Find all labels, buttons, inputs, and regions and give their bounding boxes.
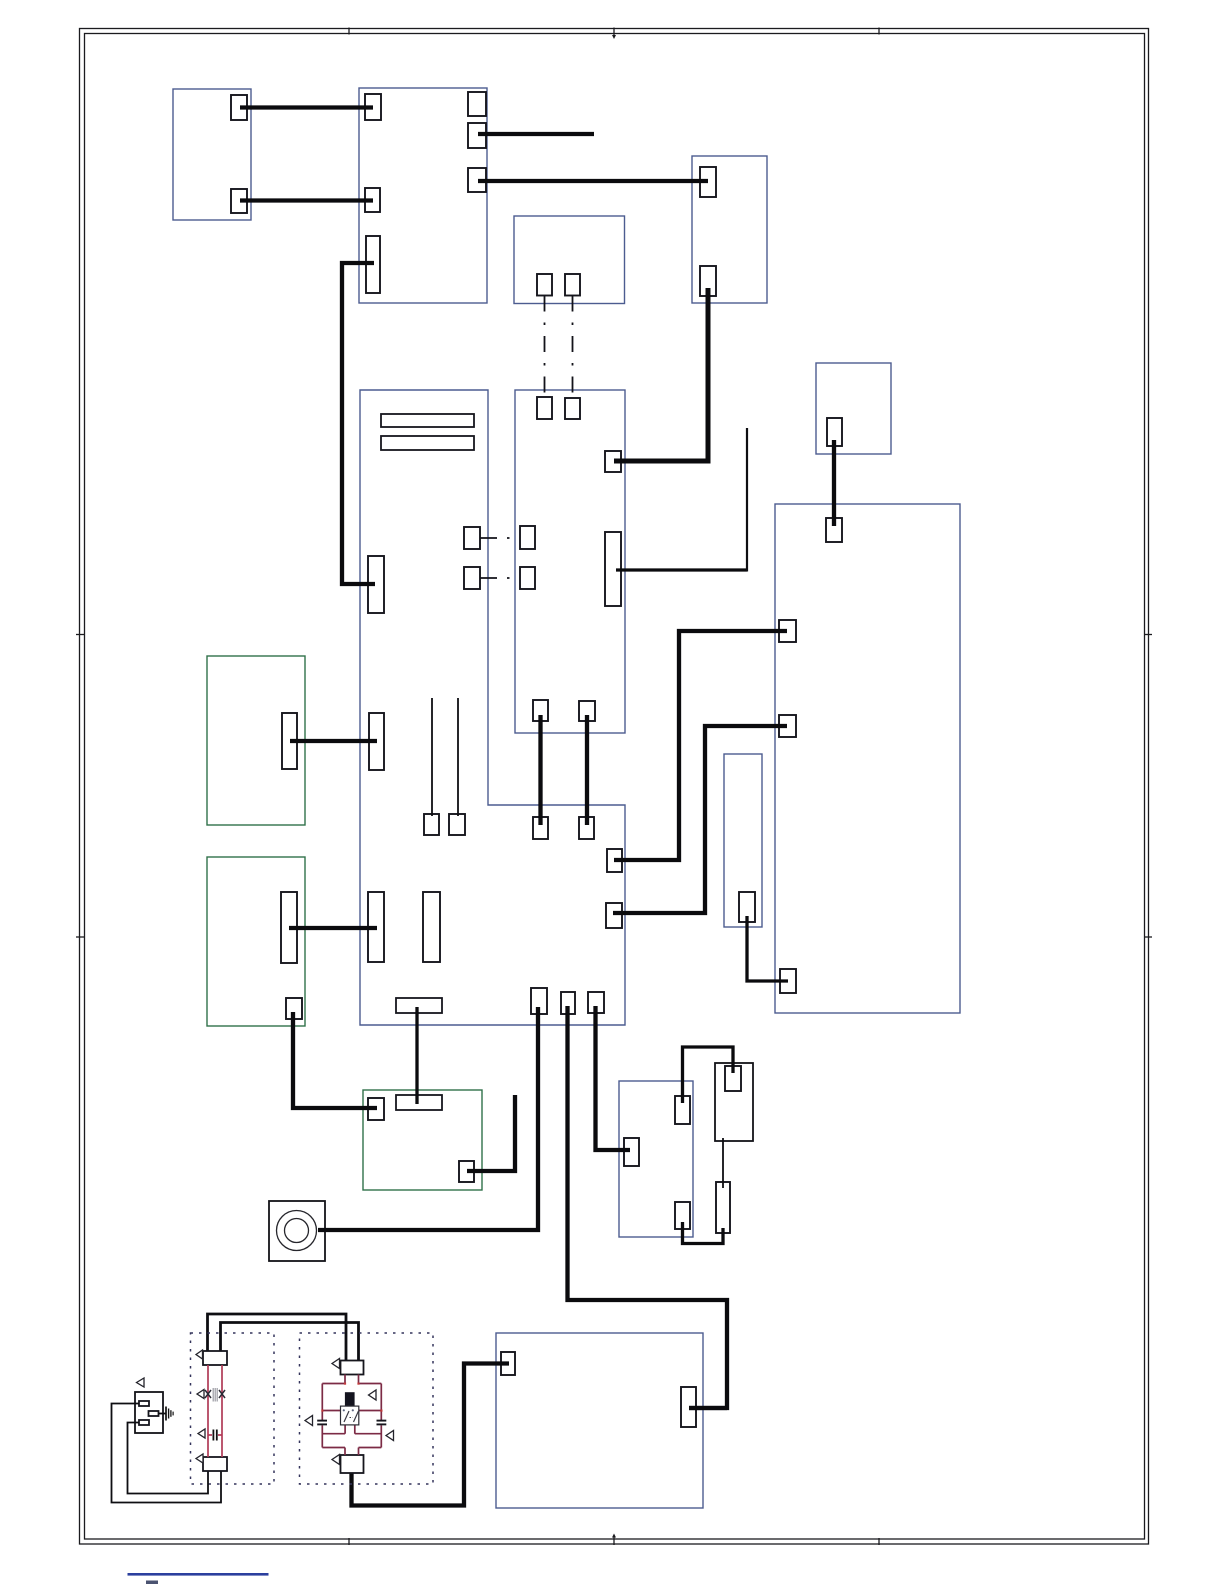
wire B-D [240,198,373,202]
igniter lower horizontals [322,1433,381,1435]
igniter mid horizontals [322,1410,381,1412]
connector F [468,92,486,116]
wire W-X [289,926,377,930]
wire stub from tall connector T vertical [746,428,748,572]
resistor element [716,1182,730,1233]
frame tick top-left [348,28,350,35]
block: narrow tall box right-center [724,754,762,927]
title underline bottom-left [128,1573,269,1576]
dash-dot link K to O [544,296,546,398]
connector J [700,266,716,296]
pin triangle lamp mid [197,1390,204,1399]
wire lamp top to igniter top (run 1) [208,1314,347,1362]
connector amplifier left [501,1352,515,1375]
dashed enclosure right (igniter assembly) [300,1333,434,1484]
connector N [826,518,842,542]
wire M to N [832,440,836,526]
wire center box lower pin 2 down [585,715,589,825]
igniter top connector [341,1361,364,1375]
wire black module to resistor (thin) [722,1138,724,1188]
connector V [369,713,384,770]
igniter coil filled block [345,1392,355,1407]
wire lower-middle box top to black module [683,1047,734,1103]
wire lower-middle box bottom loop [683,1222,724,1244]
wire control unit upper-left pin to harness [614,631,787,860]
connector center box bottom 1 [533,700,548,721]
connector O [537,397,552,419]
dash-dot link L to P [572,296,574,399]
connector harness right 2 [606,903,622,928]
block: main upper junction box [359,88,487,303]
connector U tall [282,713,297,769]
igniter right rail [380,1384,382,1448]
igniter bottom rails [322,1447,381,1449]
igniter capacitor left plates [317,1420,327,1422]
wire narrow box to control unit lower pin [747,916,788,981]
pin triangle igniter left capacitor [305,1416,313,1426]
igniter drops to bottom connector [345,1448,359,1456]
block: large right control unit box [775,504,960,1013]
block: top-left component box [173,89,251,220]
wire stub from tall connector T horizontal [616,568,747,571]
wire lamp top to igniter top (run 2) [221,1323,359,1363]
frame tick bottom-right [878,1538,880,1545]
igniter junction marks [321,1410,323,1412]
wire harness pin 2 to bottom amplifier [568,1006,728,1408]
connector green box right [459,1161,474,1182]
connector harness left tall 1 [368,556,384,613]
wire H to relay box [478,179,708,183]
igniter box drops bottom [345,1425,355,1434]
connector S2 [520,567,535,589]
relay pin 1 [139,1401,149,1406]
connector W tall [281,892,297,963]
connector control-unit pin lower [780,969,796,993]
pin triangle igniter bottom [332,1455,340,1465]
wire from tall connector E to left harness box [342,263,375,584]
connector below step 2 [579,817,594,839]
frame tick top-middle [613,28,615,36]
connector C [365,94,381,120]
igniter left rail [321,1384,323,1448]
horn inner ring [285,1219,309,1243]
connector harness bottom 3 [588,992,604,1013]
igniter capacitor right plates [377,1420,387,1422]
wire bottom amplifier right connector [689,1406,727,1410]
connector green box bar [396,1095,442,1110]
wire harness pin 3 to lower-middle box [596,1006,631,1150]
block: green switch box upper [207,656,305,825]
connector narrow box bottom [739,892,755,922]
lamp core lines [212,1388,214,1402]
connector S1 [464,567,480,589]
block: center tall box [515,390,625,733]
frame tick right-lower [1144,936,1152,938]
relay pin 2 [139,1420,149,1425]
igniter top rails [322,1383,381,1385]
connector bottom bar strip [396,998,442,1013]
connector antenna stub 1 [424,814,439,835]
pin triangle lamp bottom [196,1454,203,1463]
connector Y [286,998,302,1019]
frame tick left-lower [76,936,85,938]
frame tick bottom-middle [613,1538,615,1546]
wire green box right connector stub up [467,1095,515,1171]
connector A [231,95,247,120]
wire U-V [290,739,377,743]
connector lower-middle box bottom [675,1202,690,1229]
horn outer ring [277,1211,317,1251]
pin triangle relay [137,1378,145,1387]
connector Q [605,451,621,472]
connector D [365,188,380,212]
cropped text mark below underline [146,1581,158,1584]
connector H [468,168,486,192]
black module box [715,1063,753,1141]
connector antenna stub 2 [449,814,465,835]
connector control-unit pin middle [779,715,796,737]
lamp filament X right [219,1390,225,1398]
wire stub from connector G [478,132,594,136]
dash-dot link S1-S2 [480,577,520,579]
block: green control box bottom [363,1090,482,1190]
igniter switch box [341,1406,359,1425]
connector X2 [423,892,440,962]
lamp capacitor leads [208,1434,212,1436]
relay wire run 2 [128,1423,209,1494]
wire center box lower pin 1 down [538,715,542,825]
connector green box left [368,1098,384,1120]
igniter bottom connector [341,1455,364,1473]
frame tick bottom-left [348,1538,350,1545]
connector harness bottom 1 [531,988,547,1014]
relay box bottom-left [135,1392,163,1433]
connector L [565,274,580,296]
block: bottom amplifier box [496,1333,703,1508]
connector R1 [464,527,480,549]
lamp filament X left [205,1390,211,1398]
wire A-C [240,105,373,109]
lamp unit top connector [203,1351,227,1365]
block: green switch box lower [207,857,305,1026]
frame tick top-right [878,28,880,35]
lamp unit bottom connector [203,1457,227,1471]
connector T tall [605,532,621,606]
block: lower-middle small box [619,1081,693,1237]
pin triangle igniter top [332,1359,340,1369]
connector inside black module [725,1066,741,1091]
connector harness bottom 2 [561,992,575,1014]
ground symbol bars [165,1407,167,1421]
dash-dot link R1-R2 [480,537,520,539]
horn body square [269,1201,325,1261]
connector B [231,189,247,213]
connector K [537,274,552,296]
wire control unit mid-left pin to harness [613,726,787,913]
block: upper-right relay box [692,156,767,303]
lamp rail left [207,1365,209,1457]
wire harness bar down to green box bar [415,1007,418,1104]
lamp rail right [221,1365,223,1457]
antenna stub wire 2 [457,698,459,816]
connector M [827,418,842,446]
connector harness right 1 [607,849,622,872]
block: small sensor box top-right [816,363,891,454]
wire Y to green control box [293,1012,377,1108]
wire igniter to bottom amplifier [352,1364,510,1506]
block: upper-middle connector box [514,216,625,304]
ground lead from relay [159,1413,167,1415]
relay wire run 1 [112,1404,222,1503]
igniter switch contacts [344,1411,359,1422]
relay pin middle [149,1411,159,1416]
frame tick top-middle arrowhead [612,35,616,39]
igniter primary drops top [345,1375,359,1384]
antenna stub wire 1 [431,698,433,816]
connector center box bottom 2 [579,701,595,721]
connector lower-middle box top [675,1096,690,1124]
connector below step 1 [533,817,548,839]
connector amplifier right [681,1387,696,1427]
connector bar strip 1 [381,414,474,427]
frame tick bottom-middle arrowhead [612,1534,616,1538]
pin triangle igniter right upper [369,1390,377,1400]
frame tick right-upper [1144,634,1152,636]
pin triangle lamp top [196,1350,203,1359]
pin triangle lamp capacitor [198,1429,205,1438]
connector P [565,398,580,419]
connector I [700,167,716,197]
block: tall left main harness box (L-shape) [360,390,625,1025]
connector control-unit pin upper [779,620,796,642]
connector E tall [366,236,380,293]
dashed enclosure left (noise filter) [191,1333,275,1484]
lamp capacitor plates [212,1430,214,1441]
frame tick left-upper [76,634,85,636]
pin triangle igniter right capacitor [386,1431,394,1441]
connector R2 [520,526,535,549]
connector G [468,123,486,148]
connector lower-middle box left [624,1138,639,1166]
wire horn to harness pin [318,1007,538,1230]
connector bar strip 2 [381,436,474,450]
wire J down to connector Q [614,288,708,461]
connector X [368,892,384,962]
